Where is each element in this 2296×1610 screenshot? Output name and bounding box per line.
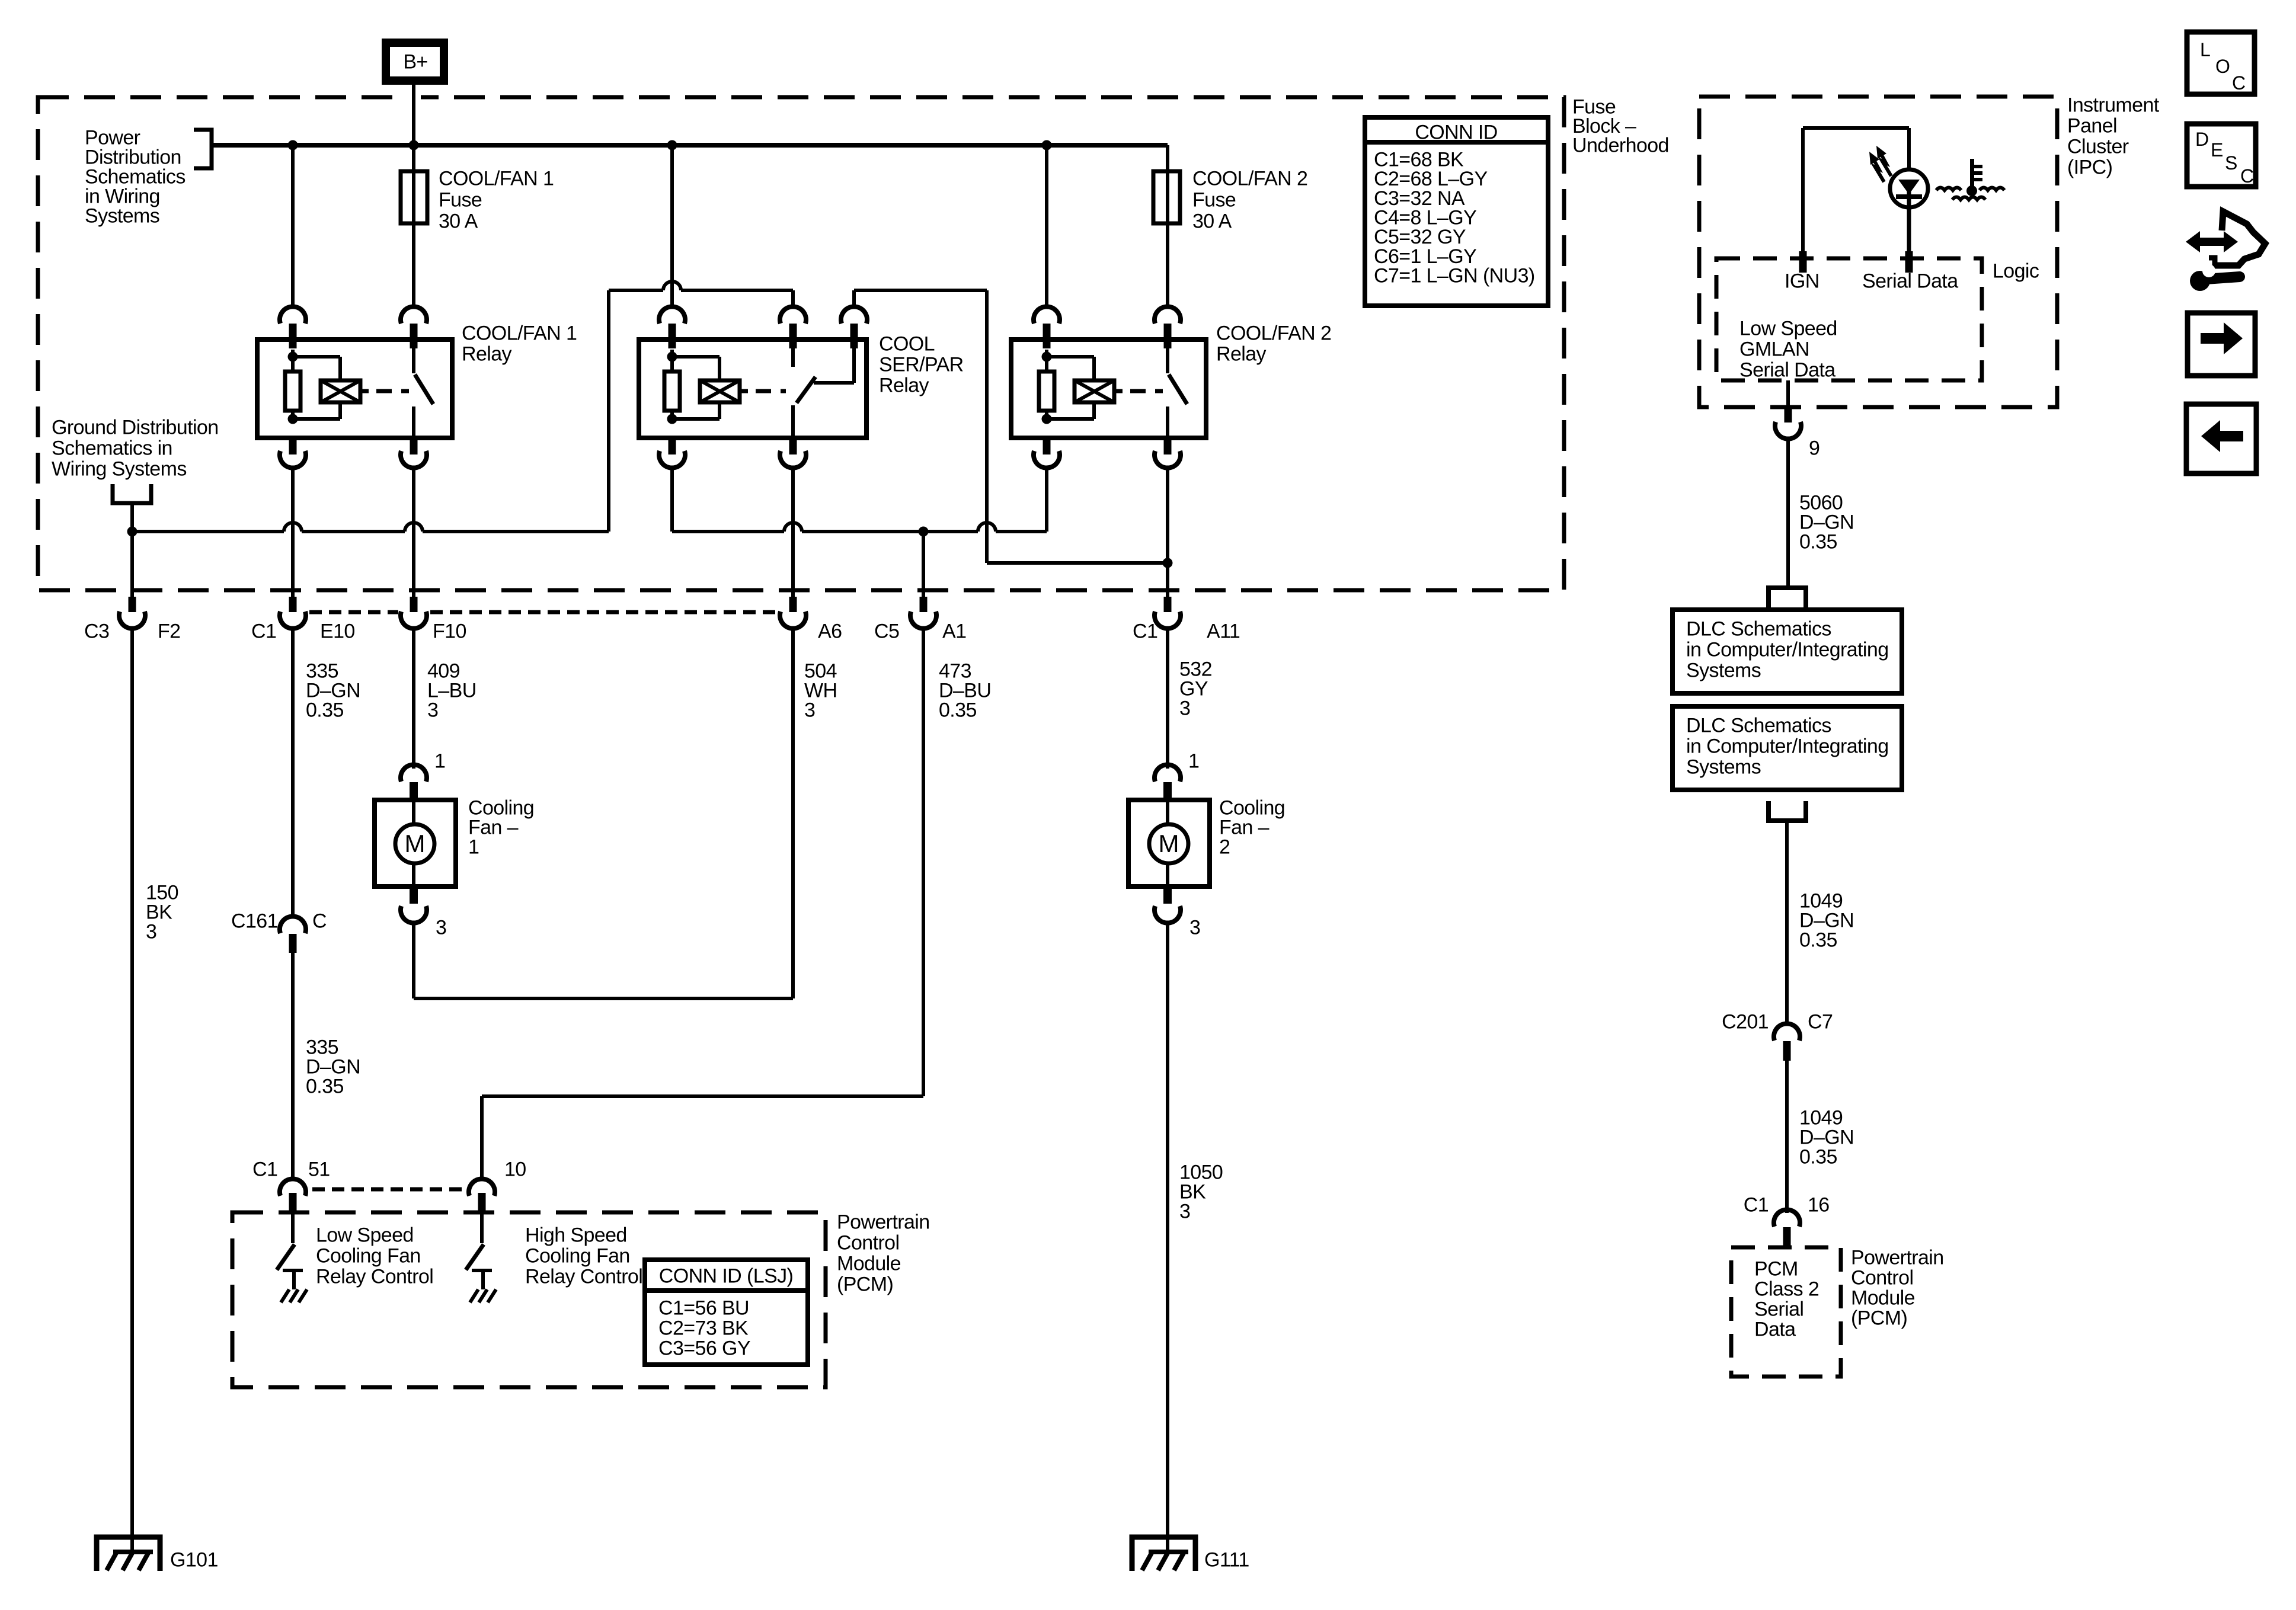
- svg-text:G101: G101: [170, 1548, 218, 1571]
- svg-text:1: 1: [1188, 750, 1199, 772]
- svg-text:Relay Control: Relay Control: [316, 1265, 433, 1288]
- svg-text:C: C: [2232, 72, 2246, 94]
- svg-text:Low Speed: Low Speed: [1739, 317, 1837, 340]
- svg-text:M: M: [1159, 830, 1179, 857]
- svg-text:C7: C7: [1808, 1010, 1833, 1033]
- svg-text:O: O: [2215, 56, 2230, 77]
- svg-text:C7=1 L–GN (NU3): C7=1 L–GN (NU3): [1374, 265, 1535, 287]
- svg-text:Systems: Systems: [1686, 756, 1761, 778]
- svg-text:1: 1: [434, 750, 445, 772]
- svg-text:Relay: Relay: [1216, 343, 1267, 365]
- svg-text:Relay: Relay: [462, 343, 512, 365]
- svg-text:Cooling Fan: Cooling Fan: [316, 1244, 421, 1267]
- svg-text:3: 3: [146, 920, 156, 943]
- svg-text:C1: C1: [1744, 1193, 1769, 1216]
- svg-text:DLC Schematics: DLC Schematics: [1686, 714, 1831, 737]
- svg-text:Serial Data: Serial Data: [1739, 359, 1835, 381]
- svg-text:Panel: Panel: [2067, 114, 2117, 137]
- svg-text:Data: Data: [1754, 1318, 1796, 1340]
- svg-text:Powertrain: Powertrain: [1851, 1246, 1944, 1269]
- svg-text:SER/PAR: SER/PAR: [879, 353, 964, 376]
- svg-text:30 A: 30 A: [439, 210, 478, 232]
- svg-text:10: 10: [504, 1158, 526, 1180]
- svg-text:C5: C5: [874, 620, 899, 642]
- svg-text:GMLAN: GMLAN: [1739, 338, 1809, 360]
- svg-text:COOL/FAN 1: COOL/FAN 1: [462, 322, 577, 344]
- svg-text:3: 3: [1179, 1200, 1190, 1222]
- svg-text:Relay: Relay: [879, 374, 929, 396]
- svg-text:Cooling Fan: Cooling Fan: [525, 1244, 630, 1267]
- svg-text:3: 3: [436, 916, 446, 939]
- svg-text:PCM: PCM: [1754, 1257, 1798, 1280]
- svg-text:COOL/FAN 2: COOL/FAN 2: [1216, 322, 1331, 344]
- svg-text:CONN ID (LSJ): CONN ID (LSJ): [659, 1265, 793, 1287]
- svg-text:0.35: 0.35: [306, 699, 344, 721]
- svg-text:Systems: Systems: [1686, 659, 1761, 681]
- svg-text:in Computer/Integrating: in Computer/Integrating: [1686, 735, 1889, 757]
- svg-text:Control: Control: [1851, 1266, 1913, 1289]
- svg-text:Powertrain: Powertrain: [837, 1211, 930, 1233]
- svg-text:3: 3: [1179, 697, 1190, 719]
- svg-text:51: 51: [308, 1158, 330, 1180]
- svg-text:1: 1: [468, 836, 479, 858]
- svg-text:0.35: 0.35: [1799, 530, 1837, 553]
- svg-text:C1: C1: [251, 620, 276, 642]
- svg-text:16: 16: [1808, 1193, 1830, 1216]
- svg-text:3: 3: [427, 699, 438, 721]
- svg-text:C201: C201: [1722, 1010, 1769, 1033]
- svg-text:G111: G111: [1204, 1548, 1249, 1571]
- svg-text:Low Speed: Low Speed: [316, 1224, 414, 1246]
- svg-text:Control: Control: [837, 1231, 899, 1254]
- svg-text:C3: C3: [84, 620, 109, 642]
- svg-text:DLC Schematics: DLC Schematics: [1686, 617, 1831, 640]
- svg-text:Logic: Logic: [1993, 260, 2039, 282]
- svg-text:Class 2: Class 2: [1754, 1278, 1819, 1300]
- svg-text:0.35: 0.35: [306, 1075, 344, 1097]
- svg-text:C3=56 GY: C3=56 GY: [658, 1337, 750, 1359]
- svg-text:0.35: 0.35: [939, 699, 977, 721]
- svg-text:F10: F10: [433, 620, 466, 642]
- svg-text:3: 3: [804, 699, 815, 721]
- svg-text:S: S: [2225, 152, 2237, 174]
- svg-text:CONN ID: CONN ID: [1415, 121, 1497, 143]
- svg-text:C1=56 BU: C1=56 BU: [658, 1297, 749, 1319]
- svg-text:L: L: [2200, 39, 2211, 60]
- svg-text:(IPC): (IPC): [2067, 156, 2112, 178]
- svg-text:COOL/FAN 1: COOL/FAN 1: [439, 167, 554, 190]
- svg-text:F2: F2: [158, 620, 180, 642]
- svg-text:A11: A11: [1207, 620, 1240, 642]
- svg-text:B+: B+: [403, 50, 427, 73]
- svg-text:IGN: IGN: [1785, 270, 1819, 292]
- svg-text:C1: C1: [1133, 620, 1157, 642]
- svg-text:A6: A6: [818, 620, 842, 642]
- svg-text:2: 2: [1219, 836, 1230, 858]
- svg-text:Instrument: Instrument: [2067, 94, 2160, 116]
- svg-text:Fuse: Fuse: [1192, 188, 1236, 211]
- svg-text:D: D: [2195, 129, 2209, 150]
- svg-text:(PCM): (PCM): [837, 1273, 893, 1295]
- svg-text:Serial Data: Serial Data: [1862, 270, 1958, 292]
- svg-text:30 A: 30 A: [1192, 210, 1232, 232]
- svg-text:C1: C1: [252, 1158, 277, 1180]
- svg-text:M: M: [405, 830, 426, 857]
- svg-text:in Computer/Integrating: in Computer/Integrating: [1686, 638, 1889, 661]
- svg-text:Underhood: Underhood: [1572, 134, 1669, 156]
- svg-text:Module: Module: [837, 1252, 901, 1275]
- svg-text:Relay Control: Relay Control: [525, 1265, 642, 1288]
- svg-text:Schematics in: Schematics in: [52, 437, 172, 459]
- svg-text:Wiring Systems: Wiring Systems: [52, 457, 187, 480]
- svg-text:Serial: Serial: [1754, 1298, 1803, 1320]
- svg-text:E: E: [2211, 139, 2223, 161]
- svg-text:C161: C161: [231, 910, 278, 932]
- svg-text:0.35: 0.35: [1799, 1145, 1837, 1168]
- svg-text:High Speed: High Speed: [525, 1224, 627, 1246]
- svg-text:COOL/FAN 2: COOL/FAN 2: [1192, 167, 1307, 190]
- svg-text:0.35: 0.35: [1799, 929, 1837, 951]
- svg-text:A1: A1: [942, 620, 966, 642]
- svg-text:3: 3: [1189, 916, 1200, 939]
- svg-text:Module: Module: [1851, 1286, 1915, 1309]
- svg-text:C: C: [2240, 165, 2254, 187]
- svg-text:C2=73 BK: C2=73 BK: [658, 1317, 749, 1339]
- svg-text:Systems: Systems: [85, 204, 159, 227]
- svg-text:E10: E10: [320, 620, 355, 642]
- svg-text:(PCM): (PCM): [1851, 1307, 1907, 1329]
- svg-text:C: C: [312, 910, 327, 932]
- svg-text:COOL: COOL: [879, 332, 935, 355]
- svg-text:Ground Distribution: Ground Distribution: [52, 416, 219, 438]
- svg-text:Cluster: Cluster: [2067, 135, 2129, 158]
- svg-text:9: 9: [1809, 437, 1819, 459]
- svg-text:Fuse: Fuse: [439, 188, 482, 211]
